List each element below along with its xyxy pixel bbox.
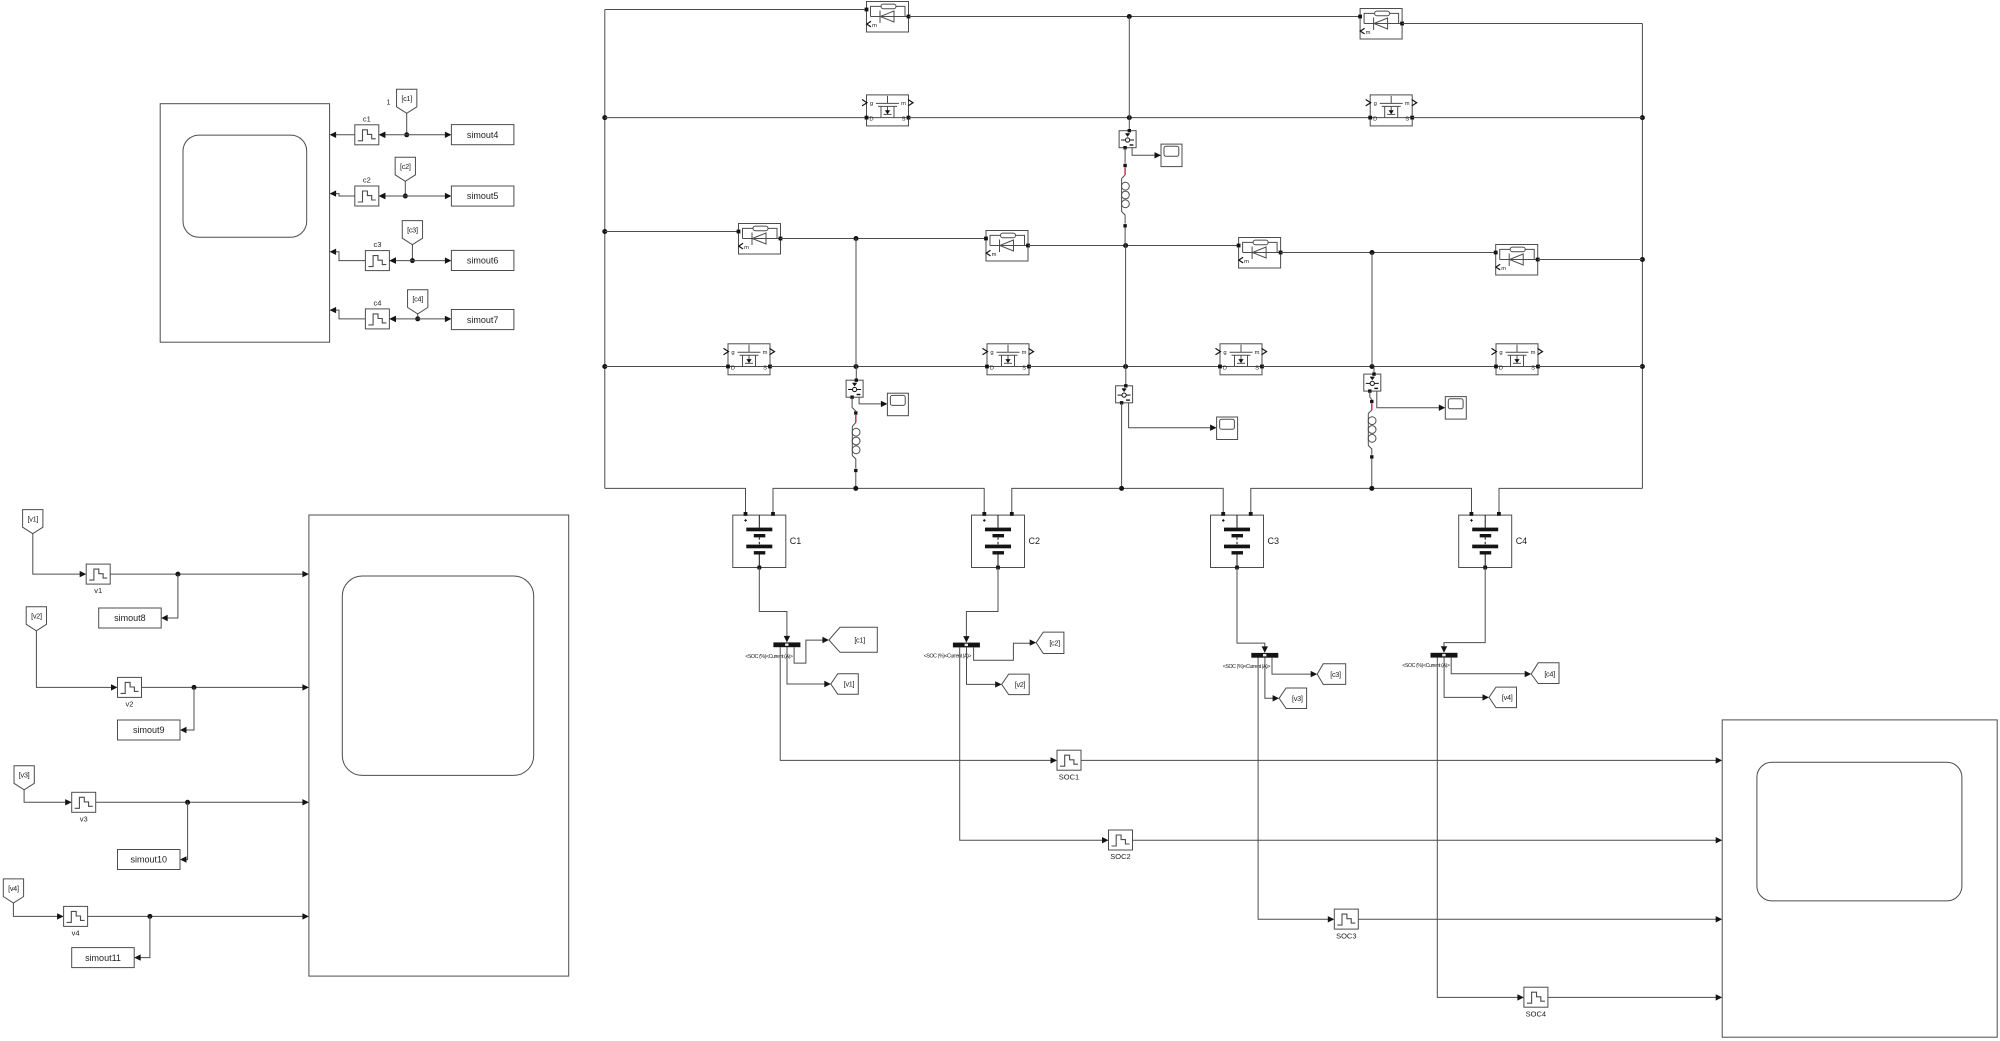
wire battery3 to demux [1237,568,1268,653]
current sensor CS4 [1116,384,1133,404]
svg-text:[c1]: [c1] [854,636,865,645]
svg-text:SOC4: SOC4 [1526,1009,1546,1018]
svg-text:[c2]: [c2] [1049,638,1060,647]
From tag [c3] [402,221,422,245]
wire row3 a [605,231,739,233]
node junction c4 [415,316,420,321]
svg-text:simout10: simout10 [131,855,168,865]
svg-text:v2: v2 [126,699,134,708]
mosfet Q1 [862,95,913,126]
Goto tag [c4] [1531,663,1559,684]
wire row3 e [1538,259,1643,261]
wire demux2 to [c2] [974,639,1037,660]
port node b1 [854,411,857,414]
signal label battery1 [745,654,793,660]
wire row5 segD [1251,488,1472,515]
wire chainB pre-coil [852,423,856,427]
svg-text:[c4]: [c4] [1544,670,1555,679]
wire SOC1 to Scope3 [1081,757,1722,763]
wire [c1] down [406,113,408,135]
svg-text:v4: v4 [72,928,80,937]
From tag [v3] [14,766,34,790]
svg-text:[v2]: [v2] [1015,680,1026,689]
current sensor CS3 [1364,372,1381,392]
svg-text:simout9: simout9 [133,725,165,735]
wire demux4 to [v4] [1444,657,1489,700]
rate transition block v1 [86,564,110,595]
wire [c3] down [411,245,413,261]
wire c3 to Scope1 [330,249,366,261]
wire chainC to row5 [1371,459,1373,489]
port node b2 [854,469,857,472]
inductor L2 [852,427,860,456]
node junction c1 [404,132,409,137]
diode D3 [737,224,783,255]
wire CS2 to scope [859,397,887,407]
mosfet Q2 [1366,95,1417,126]
red segment chainA [1124,168,1126,176]
wire chainB post-coil [852,456,856,469]
rate transition block SOC2 [1109,830,1133,861]
svg-text:simout4: simout4 [467,130,499,140]
wire [v4] to v4 [13,903,63,920]
svg-text:[c3]: [c3] [407,226,418,235]
wire row1 mid [909,16,1361,18]
svg-text:[v3]: [v3] [1292,694,1303,703]
node row3-chainB [854,236,859,241]
From tag [v1] [23,510,43,534]
svg-text:D: D [1499,365,1503,371]
port node a2 [1123,224,1126,227]
svg-text:<SOC (%)<Current (A)>: <SOC (%)<Current (A)> [745,654,793,660]
From tag [v2] [26,607,46,631]
node row1-chainA [1127,14,1132,19]
wire [v1] to v1 [33,534,86,578]
node row5-chainC [1369,486,1374,491]
node right-row2 [1640,115,1645,120]
svg-text:g: g [1374,101,1377,107]
To Workspace simout11 [72,948,135,968]
red segment chainC [1371,404,1373,411]
rate transition block SOC4 [1524,987,1548,1018]
node right-row3 [1640,257,1645,262]
wire chainC row4-sensor [1373,367,1375,375]
node row4-chainB [854,364,859,369]
wire junction to simout9 [180,687,194,733]
svg-text:S: S [1255,365,1259,371]
svg-text:D: D [731,365,735,371]
scope small Sc1 [1161,144,1182,167]
svg-text:C4: C4 [1516,536,1528,546]
svg-text:SOC3: SOC3 [1336,931,1356,940]
svg-text:D: D [1373,117,1377,123]
scope small Sc3 [1445,397,1466,420]
From tag [c4] [408,290,428,314]
wire junction to simout10 [180,802,188,862]
svg-text:[v2]: [v2] [31,612,42,621]
svg-text:D: D [1223,365,1227,371]
svg-text:g: g [1499,350,1502,356]
wire row4 a [605,366,728,368]
wire row2 right [1412,117,1642,119]
port node c2p [1370,455,1373,458]
svg-text:m: m [992,252,997,258]
svg-text:v1: v1 [94,586,102,595]
svg-text:[c4]: [c4] [412,295,423,304]
wire row4 e [1538,366,1642,368]
node left-row3 [602,229,607,234]
svg-text:m: m [763,350,768,356]
node row3-chainC [1370,250,1375,255]
svg-text:simout6: simout6 [467,256,499,266]
svg-text:g: g [990,350,993,356]
wire row2 left [605,117,867,119]
wire junction to c3 [389,257,412,263]
node row5-chainB [853,486,858,491]
Goto tag [v3] [1279,688,1307,709]
red segment chainB [855,415,857,423]
svg-text:g: g [1223,350,1226,356]
node junction v1 [175,572,180,577]
To Workspace simout8 [99,608,162,628]
wire c4 to Scope1 [330,307,366,319]
port node c1p [1370,400,1373,403]
wire chainA pre-coil [1122,175,1126,179]
svg-text:c4: c4 [373,298,381,307]
wire chainA row2-sensor [1128,118,1130,131]
rate transition block c4 [365,298,396,329]
svg-text:simout8: simout8 [114,613,146,623]
From tag [v4] [3,879,23,903]
wire demux1 to SOC1 [780,647,1057,764]
svg-text:D: D [869,117,873,123]
Goto tag [v4] [1489,687,1517,708]
diode D4 [984,231,1030,262]
node row4-chainC [1370,364,1375,369]
svg-text:m: m [872,23,877,29]
svg-text:c1: c1 [363,114,371,123]
wire [v2] to v2 [36,631,117,691]
wire [v3] to v3 [24,790,72,806]
svg-text:[v4]: [v4] [1502,693,1513,702]
rate transition block v3 [72,792,96,823]
wire chainB row4-sensor [855,367,857,381]
wire chainA row1-row2 [1128,17,1130,118]
wire junction to simout5 [405,193,451,199]
wire right bus vertical [1641,24,1643,489]
mosfet Q4 [983,344,1034,375]
svg-text:S: S [1022,365,1026,371]
rate transition block c1 [355,114,386,145]
svg-text:v3: v3 [80,814,88,823]
svg-text:[v1]: [v1] [28,515,39,524]
node left-row4 [602,364,607,369]
current sensor CS2 [846,379,863,399]
rate transition block c3 [365,240,396,271]
wire junction to simout4 [407,132,452,138]
wire row5 segB [773,488,984,515]
svg-text:<SOC (%)<Current (A)>: <SOC (%)<Current (A)> [1223,664,1271,670]
node left-row2 [602,115,607,120]
battery C2 [972,512,1041,569]
wire c2 to Scope1 [330,190,355,196]
wire demux1 to [c1] [794,637,829,663]
svg-text:simout11: simout11 [85,953,121,963]
wire battery2 to demux [963,568,998,643]
rate transition block v4 [64,906,88,937]
wire c1 to Scope1 [330,132,355,138]
rate transition block SOC1 [1057,750,1081,781]
battery C4 [1459,512,1528,569]
svg-text:SOC1: SOC1 [1059,772,1079,781]
svg-text:D: D [990,365,994,371]
diode D6 [1494,245,1540,276]
wire SOC2 to Scope3 [1133,837,1723,843]
signal label battery3 [1223,664,1271,670]
wire row4 c [1029,366,1220,368]
To Workspace simout10 [118,850,181,870]
wire SOC3 to Scope3 [1358,916,1722,922]
current sensor CS1 [1119,129,1136,149]
svg-text:simout7: simout7 [467,315,499,325]
wire row5 segA [605,488,746,515]
scope Scope1 [160,104,329,343]
inductor L1 [1122,179,1130,212]
wire demux4 to SOC4 [1437,657,1524,1000]
node junction v3 [185,800,190,805]
label 1 [387,100,391,107]
wire v1 to Scope2 [110,571,309,577]
rate transition block SOC3 [1334,909,1358,940]
wire demux4 to [c4] [1451,658,1531,678]
wire row3 d [1281,252,1496,254]
scope small Sc4 [1217,417,1238,440]
svg-text:m: m [1531,350,1536,356]
diode D2 [1358,9,1404,40]
wire SOC4 to Scope3 [1548,994,1722,1000]
svg-text:1: 1 [387,100,391,107]
scope small Sc2 [887,393,908,416]
From tag [c1] [397,89,417,113]
svg-text:[v3]: [v3] [19,771,30,780]
wire junction to simout11 [134,916,150,960]
node junction v4 [147,914,152,919]
svg-text:c2: c2 [363,176,371,185]
wire CS2 down [852,397,856,411]
From tag [c2] [395,157,415,181]
svg-text:[c1]: [c1] [401,94,412,103]
wire CS3 down [1370,391,1372,399]
wire demux3 to SOC3 [1258,658,1334,923]
signal label battery4 [1402,663,1450,669]
node junction v2 [192,685,197,690]
wire row1 right [1402,23,1642,25]
wire junction to simout7 [418,316,452,322]
svg-text:m: m [1366,30,1371,36]
wire row5 segC [1012,488,1223,515]
svg-text:SOC2: SOC2 [1110,852,1130,861]
wire row1 left [605,9,867,11]
svg-text:simout5: simout5 [467,191,499,201]
mosfet Q6 [1492,344,1543,375]
node row5-chainD [1119,486,1124,491]
wire row5 segE [1499,488,1642,515]
Goto tag [v1] [831,674,859,695]
wire CS1 to scope [1132,148,1161,159]
svg-text:m: m [901,101,906,107]
node right-row4 [1640,364,1645,369]
wire junction to simout8 [161,574,178,621]
mosfet Q3 [724,344,775,375]
wire chainD to row5 [1121,403,1123,489]
To Workspace simout5 [451,186,514,206]
svg-text:[v4]: [v4] [8,884,19,893]
wire row2 mid [909,117,1371,119]
inductor L3 [1368,414,1376,446]
node row2-chainA [1127,115,1132,120]
wire demux1 to [v1] [787,647,831,687]
wire chainB row3-row4 [855,239,857,367]
To Workspace simout6 [451,250,514,270]
demux bar 4 [1431,653,1458,658]
wire junction to simout6 [412,257,451,263]
wire battery4 to demux [1441,568,1485,653]
wire [c2] down [404,181,406,196]
svg-text:[v1]: [v1] [844,680,855,689]
svg-text:S: S [763,365,767,371]
svg-text:m: m [1405,101,1410,107]
wire CS4 to scope [1129,403,1217,431]
svg-text:[c3]: [c3] [1330,670,1341,679]
Goto tag [c2] [1036,632,1064,653]
To Workspace simout4 [451,125,514,145]
wire junction to c4 [389,316,417,322]
rate transition block c2 [355,176,386,207]
svg-text:c3: c3 [373,240,381,249]
wire CS3 to scope [1377,391,1446,411]
battery C3 [1211,512,1280,569]
svg-text:m: m [1255,350,1260,356]
Goto tag [c1] [829,627,877,652]
svg-text:C2: C2 [1029,536,1041,546]
signal label battery2 [924,654,972,660]
wire demux2 to [v2] [967,647,1002,687]
svg-text:m: m [744,245,749,251]
scope Scope3 [1722,720,1997,1037]
wire chainA post-coil [1122,212,1126,224]
demux bar 2 [953,643,980,648]
wire battery1 to demux [759,568,790,643]
mosfet Q5 [1216,344,1267,375]
wire junction to c2 [379,193,406,199]
wire demux2 to SOC2 [960,647,1109,843]
svg-text:C1: C1 [790,536,802,546]
svg-text:<SOC (%)<Current (A)>: <SOC (%)<Current (A)> [924,654,972,660]
wire chainC row3-row4 [1371,253,1373,367]
svg-text:g: g [731,350,734,356]
Goto tag [c3] [1317,664,1346,685]
To Workspace simout9 [118,720,181,740]
node junction c3 [410,258,415,263]
svg-text:C3: C3 [1268,536,1280,546]
Goto tag [v2] [1002,674,1030,695]
wire v2 to Scope2 [142,684,309,690]
wire v4 to Scope2 [88,913,309,919]
wire row4 b [770,366,987,368]
node junction c2 [403,194,408,199]
wire chainB to row5 [855,472,857,488]
diode D1 [865,2,911,33]
svg-text:g: g [870,101,873,107]
demux bar 1 [773,642,800,647]
wire junction to c1 [379,132,407,138]
rate transition block v2 [118,677,142,708]
wire chainC pre-coil [1368,410,1372,414]
battery C1 [733,512,802,569]
svg-text:[c2]: [c2] [400,162,411,171]
wire chainA to row3 [1124,228,1126,246]
svg-text:m: m [1501,266,1506,272]
node row4-chainA [1123,364,1128,369]
svg-text:S: S [1405,117,1409,123]
demux bar 3 [1251,653,1278,658]
wire row3 b [781,238,987,240]
node row3-chainA [1123,243,1128,248]
svg-text:S: S [902,117,906,123]
diode D5 [1237,238,1283,269]
svg-text:<SOC (%)<Current (A)>: <SOC (%)<Current (A)> [1402,663,1450,669]
port node a1 [1123,164,1126,167]
svg-text:m: m [1244,259,1249,265]
wire demux3 to [c3] [1272,658,1317,678]
scope Scope2 [309,515,569,976]
wire chainC post-coil [1368,446,1372,455]
wire chainA row3-row4 [1125,246,1127,367]
wire [c4] down [417,314,419,319]
svg-text:m: m [1022,350,1027,356]
wire demux3 to [v3] [1265,658,1279,702]
wire CS1 down [1124,148,1126,164]
svg-text:S: S [1531,365,1535,371]
wire chainD row4-sensor [1125,367,1127,386]
wire row3 c [1028,245,1239,247]
wire row4 d [1262,366,1496,368]
wire left bus vertical [604,10,606,489]
To Workspace simout7 [451,310,514,330]
wire v3 to Scope2 [96,799,309,805]
